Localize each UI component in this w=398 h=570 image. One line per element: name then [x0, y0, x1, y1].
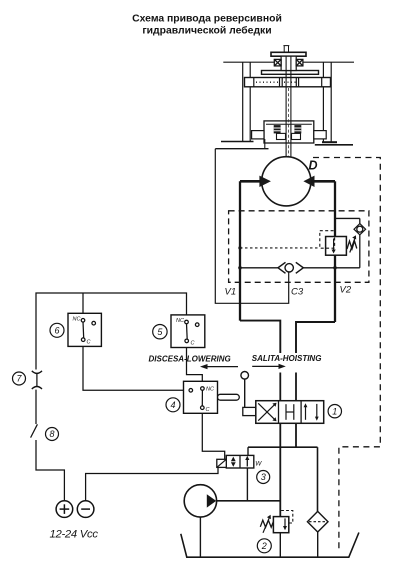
svg-text:4: 4 [170, 400, 175, 410]
svg-text:NC: NC [206, 387, 214, 393]
svg-text:DISCESA-LOWERING: DISCESA-LOWERING [149, 355, 231, 364]
svg-text:6: 6 [54, 326, 59, 336]
svg-text:C: C [206, 407, 210, 413]
svg-text:NC: NC [73, 317, 81, 323]
svg-text:D: D [309, 159, 318, 173]
svg-text:1: 1 [332, 406, 337, 416]
svg-text:C: C [87, 340, 91, 346]
svg-text:V2: V2 [340, 285, 352, 296]
svg-text:W: W [255, 460, 262, 467]
svg-text:2: 2 [261, 541, 267, 551]
svg-text:NC: NC [176, 318, 184, 324]
svg-text:V1: V1 [225, 287, 237, 298]
svg-text:гидравлической лебедки: гидравлической лебедки [142, 25, 271, 37]
svg-text:12-24 Vcc: 12-24 Vcc [50, 529, 99, 541]
svg-text:3: 3 [261, 472, 266, 482]
svg-text:Схема привода реверсивной: Схема привода реверсивной [132, 13, 282, 24]
svg-text:7: 7 [16, 374, 22, 384]
svg-text:C: C [191, 341, 195, 347]
svg-text:SALITA-HOISTING: SALITA-HOISTING [252, 354, 322, 363]
svg-text:C3: C3 [291, 287, 304, 298]
svg-text:8: 8 [49, 429, 54, 439]
svg-text:5: 5 [157, 327, 163, 337]
